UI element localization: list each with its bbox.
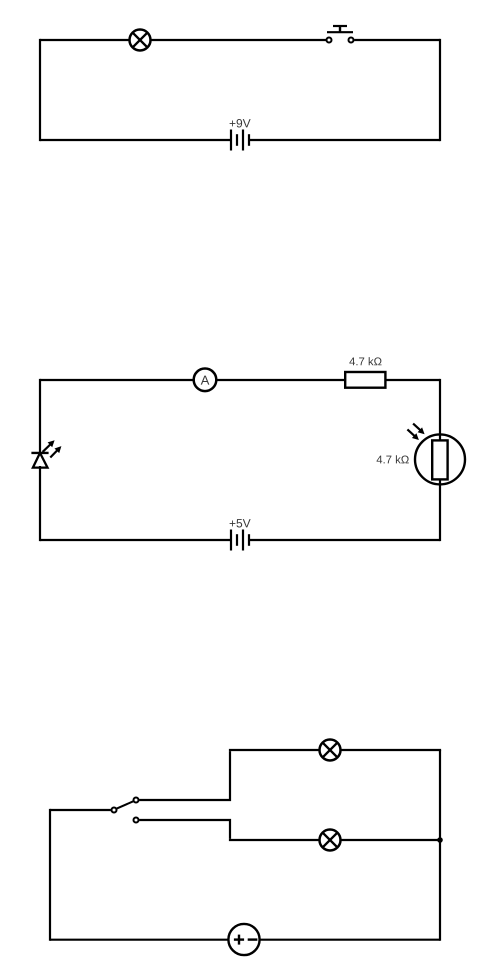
- LED D1 triangle: [33, 453, 48, 468]
- junction node: [437, 837, 443, 843]
- wire: top rail right segment (circuit 1): [354, 39, 440, 41]
- battery BT1 plate short left: [236, 134, 238, 146]
- lamp DS3: [320, 830, 341, 851]
- wire: bottom rail right segment (circuit 3): [260, 939, 440, 941]
- pushbutton S1 contact left: [327, 38, 332, 43]
- pushbutton S1 bridge bar: [327, 31, 353, 33]
- wire: upper throw to top branch (circuit 3): [139, 751, 230, 800]
- switch S2 lever: [117, 801, 134, 808]
- wire: top rail right segment (circuit 2): [386, 379, 440, 381]
- label 4.7 kOhm (resistor): [349, 357, 381, 365]
- label A: [201, 376, 210, 385]
- LDR arrow 2: [407, 429, 419, 440]
- LED arrow 2: [50, 446, 61, 457]
- battery BT3 minus sign: [248, 938, 258, 940]
- wire: left rail (circuit 1): [39, 39, 41, 141]
- ammeter M1: [194, 369, 217, 392]
- wire: top rail middle segment (circuit 1): [151, 39, 327, 41]
- battery BT2 plate short left: [236, 534, 238, 546]
- switch S2 throw contact upper: [134, 798, 139, 803]
- pushbutton S1 stem: [339, 25, 341, 32]
- wire: bottom rail right segment (circuit 1): [249, 139, 440, 141]
- wire: middle branch left segment (circuit 3): [229, 839, 320, 841]
- pushbutton S1 contact right: [349, 38, 354, 43]
- lamp DS2: [320, 740, 341, 761]
- switch S2 common contact: [112, 808, 117, 813]
- LED arrow 1: [43, 440, 55, 452]
- wire: top branch right segment (circuit 3): [341, 749, 442, 751]
- label +9V: [230, 119, 251, 128]
- wire: lower throw to middle branch (circuit 3): [139, 820, 230, 839]
- battery BT2 plate short right: [248, 534, 250, 546]
- battery BT1 plate short right: [248, 134, 250, 146]
- wire: right rail (circuit 3): [439, 750, 441, 941]
- wire: right rail (circuit 1): [439, 39, 441, 141]
- battery BT2 plate long right: [242, 530, 244, 551]
- lamp DS1: [130, 30, 151, 51]
- LDR arrow 1: [413, 424, 425, 435]
- label +5V: [230, 519, 251, 527]
- switch S2 throw contact lower: [134, 818, 139, 823]
- wire: right rail upper segment (circuit 2): [439, 379, 441, 441]
- wire: feed to switch common (circuit 3): [50, 809, 111, 811]
- wire: top rail middle segment (circuit 2): [216, 379, 345, 381]
- pushbutton S1 cap: [333, 25, 347, 27]
- LDR R2 circle: [415, 434, 465, 484]
- battery BT3 plus sign: [234, 935, 244, 945]
- resistor R1 4.7k: [345, 372, 385, 388]
- wire: bottom rail left segment (circuit 2): [40, 539, 231, 541]
- LDR R2 body: [432, 440, 447, 479]
- wire: top rail left segment (circuit 2): [40, 379, 194, 381]
- battery BT1 +9V plate long left: [230, 130, 232, 151]
- label 4.7 kOhm (LDR): [377, 455, 409, 463]
- wire: top rail left segment (circuit 1): [40, 39, 130, 41]
- battery BT1 plate long right: [242, 130, 244, 151]
- wire: bottom rail left segment (circuit 3): [50, 939, 228, 941]
- wire: middle branch right segment (circuit 3): [341, 839, 441, 841]
- battery BT3 source circle: [228, 924, 259, 955]
- wire: left rail lower segment (circuit 2): [39, 466, 41, 541]
- wire: left rail (circuit 3): [49, 809, 51, 941]
- LED D1 cathode bar: [31, 452, 48, 454]
- wire: bottom rail right segment (circuit 2): [249, 539, 440, 541]
- wire: right rail lower segment (circuit 2): [439, 479, 441, 541]
- wire: top branch left segment (circuit 3): [229, 749, 320, 751]
- wire: bottom rail left segment (circuit 1): [40, 139, 231, 141]
- battery BT2 +5V plate long left: [230, 530, 232, 551]
- wire: left rail upper segment (circuit 2): [39, 379, 41, 454]
